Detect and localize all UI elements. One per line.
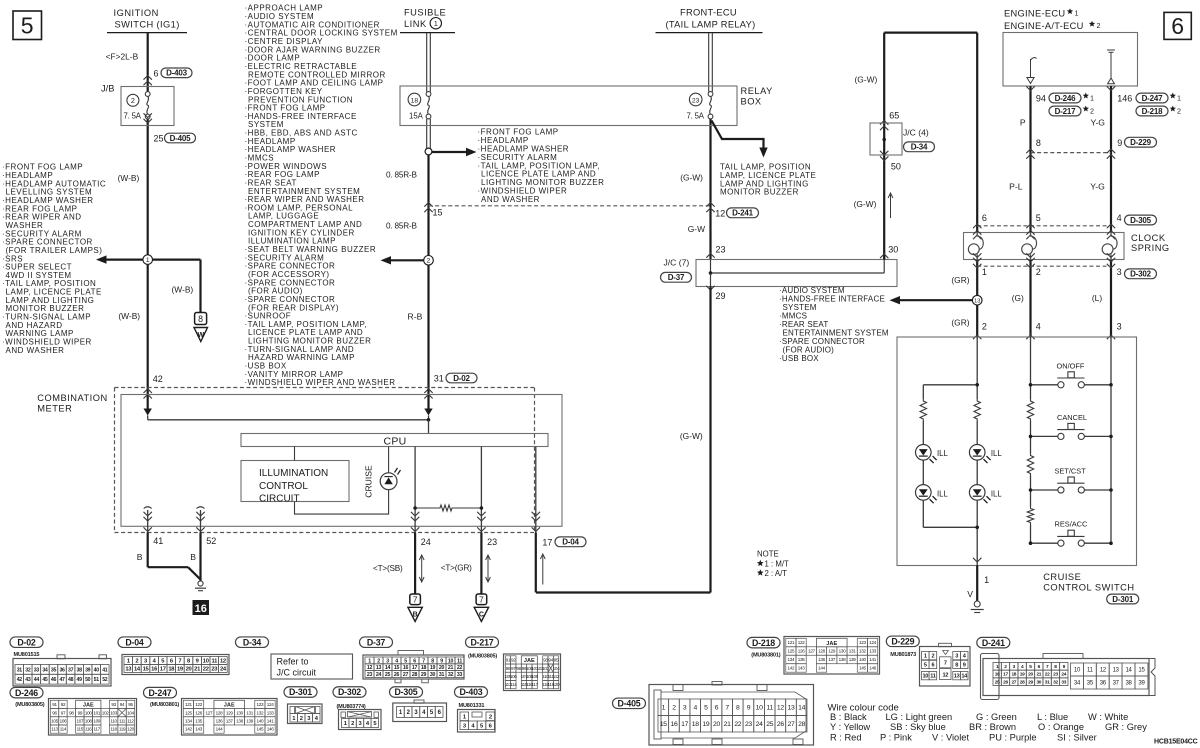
svg-text:23: 23: [1053, 672, 1058, 678]
svg-text:0. 85R-B: 0. 85R-B: [386, 221, 417, 230]
svg-text:145: 145: [859, 666, 867, 671]
svg-text:2: 2: [1097, 21, 1101, 30]
svg-text:D-405: D-405: [170, 134, 192, 143]
svg-text:134: 134: [788, 657, 796, 662]
svg-text:93: 93: [111, 702, 116, 707]
svg-text:91: 91: [52, 702, 57, 707]
svg-text:9: 9: [440, 658, 443, 664]
svg-text:CONTROL: CONTROL: [259, 481, 308, 492]
svg-text:HCB15E04CC: HCB15E04CC: [1154, 739, 1198, 746]
svg-text:109: 109: [531, 674, 539, 679]
svg-text:10: 10: [1074, 668, 1081, 674]
svg-text:CIRCUIT: CIRCUIT: [259, 493, 300, 504]
svg-text:41: 41: [102, 667, 108, 673]
svg-text:G : Green: G : Green: [976, 712, 1017, 722]
svg-text:2: 2: [300, 716, 303, 722]
svg-text:23: 23: [716, 244, 726, 254]
svg-text:99: 99: [78, 710, 83, 715]
svg-text:D-34: D-34: [911, 143, 928, 152]
svg-text:111: 111: [119, 719, 126, 724]
svg-text:136: 136: [818, 657, 826, 662]
svg-text:45: 45: [42, 677, 48, 683]
svg-text:1: 1: [368, 658, 371, 664]
svg-text:122: 122: [195, 702, 203, 707]
svg-text:MU801331: MU801331: [459, 703, 485, 709]
svg-text:(GR): (GR): [951, 318, 969, 328]
svg-text:D-403: D-403: [166, 69, 188, 78]
svg-text:136: 136: [216, 719, 224, 724]
svg-text:D-34: D-34: [243, 637, 262, 647]
svg-text:P : Pink: P : Pink: [880, 733, 912, 743]
svg-text:24: 24: [421, 537, 431, 547]
svg-text:105: 105: [51, 719, 59, 724]
svg-text:10: 10: [203, 659, 209, 665]
svg-text:125: 125: [788, 649, 796, 654]
svg-text:130: 130: [839, 649, 847, 654]
svg-text:ENGINE-ECU: ENGINE-ECU: [1004, 8, 1065, 18]
svg-text:108: 108: [85, 719, 93, 724]
svg-text:96: 96: [52, 710, 57, 715]
svg-text:19: 19: [1020, 672, 1025, 678]
svg-text:23: 23: [487, 537, 497, 547]
svg-text:SPRING: SPRING: [1131, 243, 1170, 253]
svg-text:124: 124: [267, 702, 275, 707]
svg-text:D-305: D-305: [1130, 216, 1152, 225]
svg-text:28: 28: [412, 672, 418, 678]
svg-text:24: 24: [756, 721, 763, 728]
svg-text:1 : M/T: 1 : M/T: [765, 559, 789, 568]
svg-text:146: 146: [1117, 93, 1132, 103]
svg-text:W: W: [197, 332, 204, 339]
svg-text:J/C (7): J/C (7): [664, 258, 690, 268]
svg-text:128: 128: [818, 649, 826, 654]
svg-text:IGNITION: IGNITION: [114, 8, 159, 18]
svg-text:(TAIL LAMP RELAY): (TAIL LAMP RELAY): [666, 20, 756, 30]
svg-text:SWITCH (IG1): SWITCH (IG1): [115, 20, 180, 30]
svg-text:126: 126: [195, 710, 203, 715]
svg-text:42: 42: [153, 374, 163, 384]
svg-text:97: 97: [61, 710, 66, 715]
svg-text:16: 16: [670, 721, 677, 728]
svg-text:2: 2: [1177, 106, 1181, 115]
svg-text:D-241: D-241: [982, 638, 1005, 648]
svg-text:121: 121: [788, 640, 796, 645]
svg-text:101: 101: [93, 710, 101, 715]
svg-text:32: 32: [25, 667, 31, 673]
svg-text:92: 92: [61, 702, 66, 707]
svg-text:6: 6: [413, 658, 416, 664]
svg-text:(G-W): (G-W): [680, 431, 703, 441]
svg-text:14: 14: [798, 705, 805, 712]
svg-text:13: 13: [788, 705, 795, 712]
svg-text:D-246: D-246: [15, 688, 38, 698]
svg-text:8: 8: [736, 705, 740, 712]
svg-text:7. 5A: 7. 5A: [124, 111, 142, 120]
svg-text:JAE: JAE: [524, 658, 535, 664]
svg-text:3: 3: [955, 654, 958, 660]
svg-text:37: 37: [68, 667, 74, 673]
svg-text:9: 9: [963, 662, 966, 668]
svg-text:15: 15: [433, 208, 443, 218]
svg-text:23: 23: [367, 672, 373, 678]
svg-text:D-04: D-04: [125, 637, 144, 647]
svg-text:ENGINE-A/T-ECU: ENGINE-A/T-ECU: [1004, 21, 1084, 31]
svg-text:144: 144: [818, 666, 826, 671]
svg-text:120: 120: [127, 727, 135, 732]
svg-text:V: V: [967, 589, 973, 599]
svg-text:21: 21: [724, 721, 731, 728]
svg-text:118: 118: [110, 727, 117, 732]
svg-text:D-37: D-37: [367, 637, 386, 647]
svg-text:Y-G: Y-G: [1090, 182, 1105, 192]
svg-text:V : Violet: V : Violet: [932, 733, 969, 743]
svg-text:(W-B): (W-B): [172, 285, 194, 295]
svg-text:95: 95: [554, 658, 559, 663]
svg-text:17: 17: [681, 721, 688, 728]
svg-text:41: 41: [153, 536, 163, 546]
svg-text:33: 33: [34, 667, 40, 673]
svg-text:(G-W): (G-W): [854, 199, 877, 209]
svg-text:110: 110: [110, 719, 117, 724]
svg-text:Refer to: Refer to: [277, 656, 309, 666]
svg-text:131: 131: [246, 710, 254, 715]
svg-text:JAE: JAE: [83, 703, 94, 709]
svg-text:2: 2: [377, 658, 380, 664]
svg-text:26: 26: [1003, 679, 1008, 685]
svg-text:JAE: JAE: [224, 703, 235, 709]
svg-text:12: 12: [1100, 668, 1107, 674]
svg-text:125: 125: [185, 710, 193, 715]
svg-text:7. 5A: 7. 5A: [687, 111, 705, 120]
svg-text:4: 4: [395, 658, 398, 664]
svg-text:D-02: D-02: [453, 374, 470, 383]
svg-text:RES/ACC: RES/ACC: [1055, 520, 1089, 529]
svg-text:137: 137: [828, 657, 836, 662]
svg-text:98: 98: [69, 710, 74, 715]
svg-text:10: 10: [448, 658, 454, 664]
svg-text:8: 8: [955, 662, 958, 668]
svg-text:134: 134: [185, 719, 193, 724]
svg-text:2: 2: [672, 705, 676, 712]
svg-text:140: 140: [859, 657, 867, 662]
svg-text:ILL: ILL: [991, 449, 1003, 458]
svg-text:121: 121: [185, 702, 193, 707]
svg-text:27: 27: [403, 672, 409, 678]
svg-text:22: 22: [734, 721, 741, 728]
svg-text:CONTROL SWITCH: CONTROL SWITCH: [1043, 582, 1134, 592]
svg-text:144: 144: [216, 727, 224, 732]
svg-text:102: 102: [102, 710, 110, 715]
svg-text:139: 139: [849, 657, 857, 662]
svg-text:25: 25: [385, 672, 391, 678]
svg-text:116: 116: [85, 727, 92, 732]
svg-text:49: 49: [77, 677, 83, 683]
svg-text:(MU803801): (MU803801): [150, 702, 179, 708]
svg-text:23: 23: [745, 721, 752, 728]
svg-text:20: 20: [439, 665, 445, 671]
svg-text:D-247: D-247: [1142, 94, 1164, 103]
svg-text:146: 146: [267, 727, 275, 732]
svg-text:3: 3: [1117, 267, 1122, 277]
svg-text:46: 46: [51, 677, 57, 683]
svg-text:31: 31: [439, 672, 445, 678]
svg-text:MONITOR BUZZER: MONITOR BUZZER: [720, 188, 799, 197]
svg-text:JAE: JAE: [826, 641, 837, 647]
svg-text:27: 27: [788, 721, 795, 728]
svg-text:15: 15: [394, 665, 400, 671]
svg-text:5: 5: [924, 662, 927, 668]
svg-text:50: 50: [85, 677, 91, 683]
svg-text:7: 7: [413, 595, 418, 605]
svg-text:142: 142: [788, 666, 796, 671]
svg-text:39: 39: [85, 667, 91, 673]
svg-text:19: 19: [702, 721, 709, 728]
svg-text:12: 12: [777, 705, 784, 712]
svg-text:128: 128: [216, 710, 224, 715]
svg-text:39: 39: [1138, 681, 1145, 687]
svg-text:117: 117: [94, 727, 101, 732]
svg-text:113: 113: [51, 727, 58, 732]
svg-text:CPU: CPU: [383, 436, 406, 448]
svg-text:Y-G: Y-G: [1091, 117, 1106, 127]
svg-text:1: 1: [1075, 9, 1079, 18]
svg-text:36: 36: [59, 667, 65, 673]
svg-text:ILL: ILL: [937, 489, 949, 498]
svg-text:MU801515: MU801515: [14, 652, 40, 658]
svg-text:11: 11: [1087, 668, 1094, 674]
svg-text:6: 6: [982, 213, 987, 223]
svg-text:124: 124: [869, 640, 877, 645]
svg-text:26: 26: [777, 721, 784, 728]
svg-text:6: 6: [715, 705, 719, 712]
svg-text:7: 7: [422, 658, 425, 664]
svg-text:12: 12: [220, 659, 226, 665]
svg-text:(MU803805): (MU803805): [15, 702, 44, 708]
svg-text:D-405: D-405: [618, 698, 641, 708]
svg-text:D-218: D-218: [1142, 107, 1164, 116]
svg-text:D-241: D-241: [732, 209, 754, 218]
svg-text:133: 133: [267, 710, 275, 715]
svg-text:MU801873: MU801873: [890, 652, 916, 658]
svg-text:CRUISE: CRUISE: [364, 465, 374, 498]
svg-text:C: C: [479, 611, 484, 618]
svg-text:112: 112: [127, 719, 134, 724]
svg-text:8: 8: [1036, 138, 1041, 148]
svg-text:34: 34: [42, 667, 48, 673]
svg-text:3: 3: [683, 705, 687, 712]
svg-text:ILL: ILL: [991, 489, 1003, 498]
svg-text:1: 1: [1090, 93, 1094, 102]
svg-text:22: 22: [203, 667, 209, 673]
svg-text:D-229: D-229: [891, 636, 914, 646]
svg-text:132: 132: [257, 710, 265, 715]
svg-text:31: 31: [434, 374, 444, 384]
svg-text:104: 104: [553, 666, 561, 671]
svg-text:140: 140: [257, 719, 265, 724]
svg-text:5: 5: [404, 658, 407, 664]
svg-text:LG : Light green: LG : Light green: [886, 712, 953, 722]
svg-text:FUSIBLE: FUSIBLE: [404, 7, 446, 17]
svg-text:0. 85R-B: 0. 85R-B: [386, 170, 417, 179]
svg-text:D-247: D-247: [149, 688, 172, 698]
svg-text:23: 23: [692, 97, 700, 104]
svg-text:22: 22: [457, 665, 463, 671]
svg-text:100: 100: [85, 710, 93, 715]
svg-text:94: 94: [120, 702, 125, 707]
svg-text:2: 2: [1090, 106, 1094, 115]
svg-text:44: 44: [34, 677, 40, 683]
svg-text:7: 7: [944, 661, 947, 667]
svg-text:28: 28: [1020, 679, 1025, 685]
svg-text:·USB BOX: ·USB BOX: [779, 354, 819, 363]
svg-text:137: 137: [226, 719, 234, 724]
svg-text:94: 94: [1036, 93, 1046, 103]
svg-text:129: 129: [226, 710, 234, 715]
svg-text:6: 6: [931, 662, 934, 668]
svg-text:FRONT-ECU: FRONT-ECU: [680, 7, 737, 17]
svg-text:18: 18: [421, 665, 427, 671]
svg-text:D-301: D-301: [289, 687, 312, 697]
svg-text:21: 21: [1036, 672, 1041, 678]
svg-text:·WINDSHIELD WIPER AND WASHER: ·WINDSHIELD WIPER AND WASHER: [245, 378, 396, 387]
svg-text:D-246: D-246: [1055, 94, 1077, 103]
svg-text:BR : Brown: BR : Brown: [969, 722, 1016, 732]
svg-text:65: 65: [889, 111, 899, 121]
svg-text:51: 51: [94, 677, 100, 683]
svg-text:2: 2: [982, 322, 987, 332]
svg-text:METER: METER: [37, 404, 72, 414]
svg-text:12: 12: [942, 672, 948, 678]
svg-text:1: 1: [1177, 93, 1181, 102]
svg-text:11: 11: [930, 674, 936, 680]
svg-text:AND WASHER: AND WASHER: [6, 346, 65, 355]
svg-text:25: 25: [766, 721, 773, 728]
svg-text:D-04: D-04: [562, 538, 579, 547]
svg-text:GR : Grey: GR : Grey: [1105, 722, 1147, 732]
svg-text:2: 2: [931, 654, 934, 660]
svg-text:9: 9: [747, 705, 751, 712]
svg-text:1: 1: [662, 705, 666, 712]
svg-text:120: 120: [553, 682, 561, 687]
svg-text:112: 112: [553, 674, 560, 679]
svg-text:RELAY: RELAY: [741, 86, 773, 96]
svg-text:3: 3: [1117, 322, 1122, 332]
svg-text:27: 27: [1011, 679, 1016, 685]
svg-text:11: 11: [457, 658, 462, 664]
svg-text:19: 19: [430, 665, 436, 671]
svg-text:12: 12: [715, 208, 725, 218]
svg-text:114: 114: [510, 682, 517, 687]
svg-text:D-229: D-229: [1130, 138, 1152, 147]
svg-text:2: 2: [427, 258, 431, 265]
svg-text:SB : Sky blue: SB : Sky blue: [890, 722, 946, 732]
svg-text:37: 37: [1113, 681, 1120, 687]
svg-text:ILLUMINATION: ILLUMINATION: [259, 468, 328, 479]
svg-text:D-37: D-37: [668, 273, 685, 282]
svg-text:3: 3: [386, 658, 389, 664]
svg-text:29: 29: [716, 291, 726, 301]
svg-text:130: 130: [236, 710, 244, 715]
svg-text:133: 133: [869, 649, 877, 654]
svg-text:132: 132: [859, 649, 867, 654]
svg-text:(MU803805): (MU803805): [468, 654, 497, 660]
svg-text:146: 146: [869, 666, 877, 671]
svg-text:107: 107: [76, 719, 84, 724]
svg-text:33: 33: [1061, 679, 1066, 685]
svg-text:20: 20: [186, 667, 192, 673]
svg-text:145: 145: [257, 727, 265, 732]
svg-text:13: 13: [1113, 668, 1120, 674]
svg-text:127: 127: [808, 649, 816, 654]
svg-text:32: 32: [448, 672, 454, 678]
svg-text:4: 4: [1036, 322, 1041, 332]
svg-text:7: 7: [725, 705, 729, 712]
svg-text:13: 13: [974, 299, 980, 305]
svg-text:33: 33: [457, 672, 463, 678]
svg-text:25: 25: [154, 134, 164, 144]
svg-text:10: 10: [756, 705, 763, 712]
svg-text:36: 36: [1100, 681, 1107, 687]
svg-text:17: 17: [412, 665, 418, 671]
svg-text:126: 126: [798, 649, 806, 654]
svg-text:L : Blue: L : Blue: [1037, 712, 1068, 722]
svg-text:30: 30: [888, 244, 898, 254]
svg-text:22: 22: [1045, 672, 1050, 678]
svg-text:R-B: R-B: [408, 311, 423, 321]
svg-text:(G): (G): [1012, 293, 1024, 303]
svg-text:18: 18: [411, 97, 419, 104]
svg-text:D-403: D-403: [460, 687, 483, 697]
svg-text:40: 40: [94, 667, 100, 673]
svg-text:109: 109: [93, 719, 101, 724]
svg-text:D-305: D-305: [395, 687, 418, 697]
svg-text:17: 17: [1003, 672, 1008, 678]
svg-text:20: 20: [1028, 672, 1033, 678]
svg-text:B: B: [190, 552, 196, 562]
svg-text:135: 135: [195, 719, 203, 724]
svg-text:123: 123: [257, 702, 265, 707]
svg-text:16: 16: [195, 603, 207, 615]
svg-text:32: 32: [1053, 679, 1058, 685]
svg-text:13: 13: [376, 665, 382, 671]
svg-text:O : Orange: O : Orange: [1038, 722, 1084, 732]
svg-text:B: B: [137, 552, 143, 562]
svg-text:BOX: BOX: [741, 97, 762, 107]
svg-text:15: 15: [1138, 668, 1145, 674]
svg-text:D-02: D-02: [17, 637, 36, 647]
svg-text:PU : Purple: PU : Purple: [989, 733, 1037, 743]
svg-text:35: 35: [1087, 681, 1094, 687]
svg-text:2: 2: [351, 721, 354, 727]
svg-text:122: 122: [798, 640, 806, 645]
svg-text:1: 1: [984, 575, 989, 585]
svg-text:D-217: D-217: [1055, 107, 1077, 116]
svg-text:24: 24: [376, 672, 382, 678]
svg-text:SI : Silver: SI : Silver: [1057, 733, 1097, 743]
svg-text:20: 20: [713, 721, 720, 728]
svg-text:38: 38: [77, 667, 83, 673]
svg-text:24: 24: [1061, 672, 1066, 678]
svg-text:CANCEL: CANCEL: [1057, 413, 1087, 422]
svg-text:13: 13: [954, 674, 960, 680]
svg-text:D-302: D-302: [338, 687, 361, 697]
svg-text:131: 131: [849, 649, 857, 654]
svg-text:17: 17: [160, 667, 166, 673]
svg-text:B : Black: B : Black: [830, 712, 867, 722]
svg-text:119: 119: [119, 727, 126, 732]
svg-text:35: 35: [51, 667, 57, 673]
svg-text:4: 4: [693, 705, 697, 712]
